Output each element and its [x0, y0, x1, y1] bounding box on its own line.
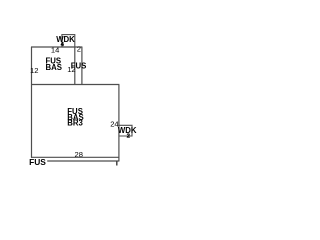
- svg-text:28: 28: [75, 150, 83, 159]
- wire bottom wall of lower section: [31, 156, 119, 158]
- deck WDK box (right): [119, 125, 132, 136]
- label FUS BAS (upper-left block): [46, 57, 62, 72]
- wire lower porch line: [31, 160, 119, 162]
- wire divider wall between 14ft block and 2ft strip: [74, 47, 76, 85]
- svg-text:14: 14: [51, 45, 59, 54]
- wire top wall of upper section: [31, 46, 82, 48]
- svg-text:BAS: BAS: [46, 63, 62, 72]
- svg-text:FUS: FUS: [71, 61, 87, 70]
- svg-text:2: 2: [77, 45, 81, 54]
- wire top wall of lower section: [31, 84, 119, 86]
- svg-text:WDK: WDK: [56, 35, 75, 44]
- wire bottom-right tick: [116, 161, 118, 166]
- wire left wall: [31, 47, 33, 158]
- svg-text:FUS: FUS: [29, 157, 46, 167]
- svg-text:12: 12: [30, 66, 38, 75]
- svg-text:BR3: BR3: [67, 119, 83, 128]
- deck WDK box (top): [62, 35, 75, 47]
- wire right wall of 2ft strip: [81, 47, 83, 85]
- svg-text:2: 2: [127, 133, 130, 139]
- label FUS BAS BR3 (lower block): [67, 107, 83, 128]
- label FUS (bottom porch): [29, 157, 48, 167]
- wire right wall of lower section: [118, 85, 120, 162]
